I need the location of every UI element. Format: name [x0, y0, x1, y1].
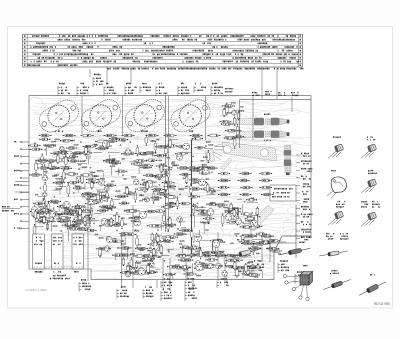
component label [128, 210, 139, 212]
component label [247, 274, 257, 276]
transistor [143, 187, 148, 192]
wire [58, 206, 60, 212]
small transistor pictorial T2 [361, 144, 377, 158]
component label [202, 255, 213, 257]
component [165, 183, 168, 189]
solder pads [185, 186, 186, 187]
component label [195, 254, 206, 256]
solder pads [53, 145, 54, 146]
wire [143, 166, 151, 168]
wire [199, 230, 201, 253]
label row under transistors [39, 135, 51, 137]
transistor [183, 143, 190, 150]
component label [157, 243, 159, 253]
component label [203, 252, 215, 254]
solder pads [70, 140, 71, 141]
solder pads [81, 194, 82, 195]
wire [128, 267, 130, 275]
component label [225, 211, 236, 213]
wire [121, 232, 123, 288]
solder pads [53, 203, 54, 204]
component label [53, 182, 64, 184]
component label [132, 271, 143, 273]
component label [195, 267, 206, 269]
solder pads [56, 188, 57, 189]
wire [67, 230, 69, 242]
solder pads [224, 207, 225, 208]
component label [136, 248, 148, 250]
label under Q4 [189, 130, 193, 132]
wire [34, 205, 36, 210]
solder pads [120, 145, 121, 146]
wire [74, 208, 81, 210]
callout block [121, 286, 126, 288]
component label [145, 135, 147, 145]
wire [35, 163, 41, 165]
wire [144, 182, 146, 191]
component [146, 183, 149, 189]
wire [193, 216, 195, 228]
component label [40, 138, 50, 140]
wire [140, 264, 151, 266]
solder pads [39, 216, 40, 217]
component label [38, 167, 48, 169]
electrolytic capacitor block 1 [33, 234, 45, 269]
component label [104, 160, 113, 162]
component label [68, 182, 79, 184]
wire [203, 223, 205, 234]
wire [196, 209, 206, 211]
wire [170, 138, 179, 140]
solder pads [57, 168, 58, 169]
transistor [126, 272, 131, 277]
solder pads [191, 198, 192, 199]
component label [207, 203, 218, 205]
component label [211, 251, 222, 253]
component [155, 234, 158, 240]
component label [154, 141, 156, 152]
wire [96, 189, 105, 191]
callout block [187, 278, 194, 280]
component label [237, 125, 239, 137]
component label [116, 213, 118, 225]
switch block pictorial SK1 (isometric) [283, 266, 312, 301]
component label [41, 154, 43, 166]
solder pads [196, 236, 197, 237]
component [233, 210, 236, 215]
wire [61, 208, 72, 210]
component [91, 183, 94, 188]
solder pads [73, 192, 74, 193]
component label [67, 184, 69, 196]
component label [86, 146, 88, 158]
component label [124, 210, 135, 212]
component label [257, 233, 267, 235]
component label [42, 199, 44, 209]
callout block [164, 278, 170, 280]
callout label block [195, 83, 201, 85]
solder pads [248, 266, 249, 267]
component label [103, 224, 114, 226]
solder pads [114, 207, 115, 208]
solder pads [97, 170, 98, 171]
component label [163, 274, 174, 276]
solder pads [73, 183, 74, 184]
solder pads [33, 216, 34, 217]
component [233, 263, 236, 269]
transistor [149, 262, 154, 267]
component label [152, 188, 164, 190]
component label [72, 213, 82, 215]
small stippled patch [205, 150, 215, 163]
solder pads [232, 221, 233, 222]
component label [206, 259, 217, 261]
component [160, 165, 163, 171]
solder pads [117, 247, 118, 248]
wire [77, 163, 87, 165]
svg-text:RD 02 990: RD 02 990 [374, 302, 390, 306]
callout label [291, 92, 298, 94]
solder pads [174, 224, 175, 225]
solder pads [80, 141, 81, 142]
solder pads [116, 191, 117, 192]
component label [124, 152, 136, 154]
solder pads [190, 215, 191, 216]
solder pads [193, 241, 194, 242]
component label [119, 202, 129, 204]
callout block [280, 260, 288, 262]
solder pads [218, 266, 219, 267]
wire [189, 256, 191, 260]
component label [262, 194, 273, 196]
power transistor Q4 TO-3 outline [167, 96, 214, 136]
solder pads [205, 145, 206, 146]
wire [170, 188, 176, 190]
solder pads [44, 171, 45, 172]
solder pads [95, 145, 96, 146]
wire [159, 241, 166, 243]
wire [61, 210, 63, 215]
component label [124, 192, 134, 194]
wire [210, 189, 221, 191]
component label [76, 228, 87, 230]
wire [111, 166, 113, 175]
solder pads [167, 157, 168, 158]
solder pads [91, 208, 92, 209]
wire [90, 204, 92, 215]
component label [68, 228, 80, 230]
solder pads [131, 220, 132, 221]
electrolytic capacitor block 2 [52, 234, 64, 269]
component label [245, 218, 256, 220]
callout block [145, 286, 152, 288]
solder pads [61, 230, 62, 231]
pcb copper traces background [29, 83, 347, 281]
solder pads [99, 237, 100, 238]
solder pads [110, 166, 111, 167]
solder pads [139, 195, 140, 196]
component label [56, 159, 68, 161]
transistor [196, 264, 203, 271]
component [57, 156, 60, 162]
component [37, 214, 40, 219]
solder pads [87, 199, 88, 200]
solder pads [119, 216, 120, 217]
wire [84, 183, 86, 190]
component label [224, 256, 226, 266]
component label [104, 159, 115, 161]
component label [198, 264, 208, 266]
solder pads [174, 273, 175, 274]
component field bottom [95, 229, 286, 261]
wire [88, 156, 90, 164]
resistor pictorial A1 [231, 249, 260, 257]
component [83, 218, 86, 224]
callout label [265, 91, 272, 93]
component label [174, 267, 184, 269]
component [233, 118, 236, 124]
wire [242, 267, 244, 278]
wire [152, 181, 157, 183]
transistor [86, 223, 91, 228]
transistor [208, 263, 213, 268]
solder pads [206, 141, 207, 142]
wire [61, 179, 63, 183]
solder pads [239, 110, 240, 111]
wire [217, 232, 219, 281]
solder pads [235, 233, 236, 234]
solder pads [179, 194, 180, 195]
component label [83, 218, 94, 220]
wire [57, 186, 66, 188]
component label [164, 205, 174, 207]
component label [76, 205, 78, 216]
component label [250, 248, 261, 250]
solder pads [38, 204, 39, 205]
solder pads [164, 260, 165, 261]
component label [65, 153, 77, 155]
wire [211, 240, 213, 250]
solder pads [54, 196, 55, 197]
transistor [244, 269, 250, 275]
solder pads [40, 188, 41, 189]
transistor [42, 175, 48, 181]
solder pads [203, 157, 204, 158]
solder pads [145, 152, 146, 153]
component label [141, 165, 152, 167]
wire [167, 248, 174, 250]
component label [162, 206, 173, 208]
transistor [165, 235, 170, 240]
component label [155, 236, 157, 248]
component label [147, 159, 157, 161]
solder pads [113, 215, 114, 216]
component label [132, 163, 142, 165]
component label [77, 210, 89, 212]
component label [45, 145, 55, 147]
solder pads [172, 162, 173, 163]
wire [201, 240, 209, 242]
component label [103, 219, 114, 221]
wire [89, 216, 91, 227]
solder pads [217, 239, 218, 240]
component label [53, 208, 55, 218]
connector box right [270, 185, 296, 201]
solder pads [82, 167, 83, 168]
component label [72, 152, 83, 154]
wire [138, 167, 140, 174]
solder pads [148, 264, 149, 265]
wire [15, 181, 29, 183]
solder pads [142, 199, 143, 200]
transistor [103, 140, 110, 147]
component label [83, 193, 94, 195]
component label [81, 174, 92, 176]
wire [179, 218, 181, 226]
transistor [209, 189, 214, 194]
wire [168, 96, 170, 232]
component label [34, 225, 36, 237]
wire [103, 173, 105, 178]
wire [105, 140, 107, 150]
wire [179, 221, 185, 223]
component label [152, 176, 164, 178]
transistor [144, 197, 149, 202]
wire [249, 270, 257, 272]
component label [177, 146, 188, 148]
transistor [63, 201, 70, 208]
wire [205, 96, 207, 140]
component label [242, 273, 253, 275]
component label [207, 151, 209, 163]
component label [180, 266, 190, 268]
solder pads [183, 178, 184, 179]
wire [238, 110, 240, 119]
component label [155, 175, 167, 177]
solder pads [135, 230, 136, 231]
component label [150, 251, 152, 261]
transistor [213, 240, 220, 247]
wire [46, 220, 48, 231]
component label [165, 145, 177, 147]
wire [105, 221, 115, 223]
component label [111, 240, 123, 242]
solder pads [100, 192, 101, 193]
transistor [203, 168, 209, 174]
component label [35, 212, 46, 214]
solder pads [78, 169, 79, 170]
solder pads [252, 261, 253, 262]
transistor [81, 205, 86, 210]
solder pads [99, 225, 100, 226]
solder pads [106, 191, 107, 192]
component label [140, 153, 150, 155]
component label [165, 224, 175, 226]
solder pads [202, 164, 203, 165]
solder pads [139, 165, 140, 166]
solder pads [193, 205, 194, 206]
component label [226, 259, 238, 261]
solder pads [53, 219, 54, 220]
component label [29, 144, 40, 146]
solder pads [171, 163, 172, 164]
solder pads [108, 248, 109, 249]
component label [36, 159, 47, 161]
component label [227, 266, 239, 268]
solder pads [231, 219, 232, 220]
component label [219, 194, 230, 196]
solder pads [219, 251, 220, 252]
component label [151, 197, 161, 199]
component label [44, 183, 46, 193]
wire [278, 248, 280, 255]
component label [206, 167, 217, 169]
solder pads [35, 194, 36, 195]
component label [180, 267, 190, 269]
component label [263, 240, 273, 242]
transistor [191, 245, 196, 250]
wire [70, 154, 76, 156]
label under Q2 [97, 130, 102, 132]
wire [181, 259, 187, 261]
transistor [107, 237, 113, 243]
solder pads [72, 225, 73, 226]
component [49, 163, 52, 168]
component label [220, 121, 230, 123]
wire [233, 275, 240, 277]
wire [229, 208, 240, 210]
component label [156, 165, 166, 167]
wire [144, 255, 150, 257]
transistor [151, 243, 158, 250]
wire [87, 200, 89, 281]
power transistor side-view pictorial T3 [331, 170, 336, 172]
solder pads [168, 250, 169, 251]
callout block [189, 288, 194, 290]
solder pads [129, 217, 130, 218]
component label [224, 137, 235, 139]
solder pads [64, 207, 65, 208]
callout label block [106, 83, 108, 85]
transistor [235, 218, 241, 224]
wire [161, 255, 170, 257]
transistor [139, 211, 146, 218]
wire [246, 202, 257, 204]
wire [165, 96, 167, 232]
callout label [252, 92, 257, 94]
component label [58, 151, 68, 153]
component label [183, 259, 193, 261]
solder pads [143, 260, 144, 261]
component label [48, 200, 60, 202]
component label [125, 233, 135, 235]
component label [233, 136, 243, 138]
component label [162, 240, 172, 242]
transistor [101, 218, 107, 224]
component label [242, 243, 254, 245]
solder pads [164, 211, 165, 212]
solder pads [237, 130, 238, 131]
wire [242, 204, 244, 214]
solder pads [195, 251, 196, 252]
wire [153, 238, 155, 248]
wire [118, 167, 120, 175]
solder pads [153, 255, 154, 256]
component label [240, 194, 250, 196]
component label [116, 139, 127, 141]
wire [180, 151, 191, 153]
callout label block [94, 73, 101, 75]
